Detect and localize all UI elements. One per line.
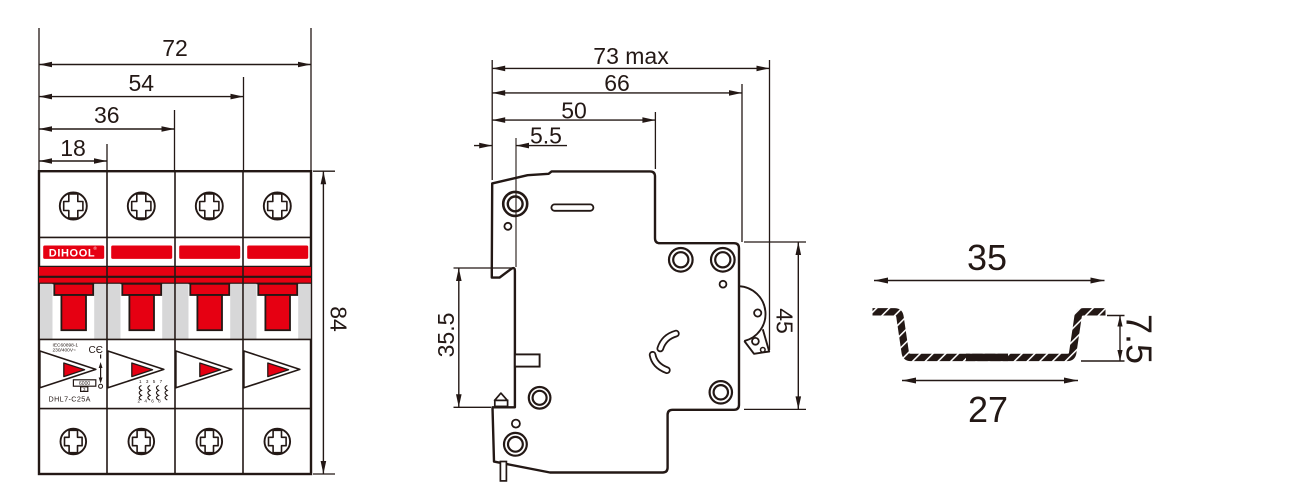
svg-text:35.5: 35.5: [433, 313, 459, 358]
svg-text:5.5: 5.5: [530, 123, 562, 149]
svg-text:CЄ: CЄ: [89, 345, 103, 356]
svg-text:1357: 1357: [139, 379, 166, 384]
svg-text:27: 27: [968, 389, 1008, 430]
svg-text:73 max: 73 max: [593, 43, 669, 69]
svg-text:2468: 2468: [138, 399, 165, 404]
svg-text:35: 35: [967, 237, 1007, 278]
svg-text:45: 45: [772, 308, 798, 334]
svg-text:230/400V~: 230/400V~: [53, 348, 77, 354]
svg-text:DHL7-C25A: DHL7-C25A: [49, 395, 91, 404]
svg-text:84: 84: [326, 306, 352, 332]
svg-text:18: 18: [60, 135, 86, 161]
svg-text:IEC60898-1: IEC60898-1: [53, 342, 79, 348]
svg-text:72: 72: [162, 35, 188, 61]
svg-text:54: 54: [129, 70, 155, 96]
svg-text:DIHOOL: DIHOOL: [49, 247, 95, 259]
svg-text:7.5: 7.5: [1119, 314, 1160, 364]
svg-text:36: 36: [94, 102, 120, 128]
svg-text:66: 66: [604, 70, 630, 96]
svg-text:50: 50: [561, 97, 587, 123]
